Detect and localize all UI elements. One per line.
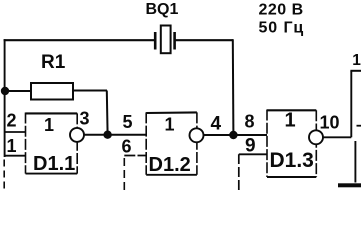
label BQ1	[146, 1, 179, 18]
wire: left vertical bus from top corner down through node A	[3, 39, 5, 190]
gate D1.2 function symbol 1	[165, 115, 175, 135]
wire: stub at right edge (clipped)	[357, 125, 361, 127]
node A: junction dot left bus / R1	[1, 87, 9, 95]
pin 3 label	[80, 109, 90, 129]
svg-text:50 Гц: 50 Гц	[259, 20, 305, 37]
label 50 Hz	[259, 20, 305, 37]
svg-text:6: 6	[122, 137, 132, 157]
wire: node A to resistor R1 left lead	[5, 90, 31, 92]
wire: pin 6 input from bottom	[124, 156, 146, 191]
svg-text:R1: R1	[41, 52, 66, 73]
label 220 V	[259, 2, 304, 19]
pin 1 label	[7, 136, 17, 156]
gate D1.3 function symbol 1	[285, 110, 296, 132]
wire: D1.1 output to D1.2 pin 5	[77, 134, 146, 136]
node B: junction dot feedback/output	[103, 131, 111, 139]
svg-text:D1.3: D1.3	[270, 149, 314, 172]
pin 5 label	[123, 112, 133, 132]
svg-text:1: 1	[165, 115, 175, 135]
inversion bubble on D1.2 output	[190, 128, 204, 142]
svg-text:8: 8	[245, 112, 255, 132]
wire: D1.3 output to right riser	[316, 136, 351, 138]
svg-text:4: 4	[211, 114, 222, 135]
wire: pin 2 input from left bus	[4, 131, 26, 133]
wire: stub to capacitor at bottom right	[354, 141, 356, 183]
svg-text:3: 3	[80, 109, 90, 129]
inversion bubble on D1.1 output	[70, 128, 84, 142]
wire: crystal right lead to corner and down to node C	[175, 39, 234, 135]
wire: D1.2 output to D1.3 pin 8	[197, 134, 267, 136]
wire: riser up to top-right exit	[350, 71, 361, 138]
svg-text:BQ1: BQ1	[146, 1, 179, 18]
wire: top-left horizontal from left riser to crystal left lead	[4, 39, 155, 41]
gate D1.2 box	[146, 112, 197, 174]
gate D1.1 box	[26, 113, 78, 174]
svg-text:1: 1	[7, 136, 17, 156]
pin 1 label of next stage (clipped)	[352, 52, 361, 69]
svg-text:1: 1	[285, 110, 296, 132]
node C: junction dot crystal/output	[229, 131, 237, 139]
gate D1.1 function symbol 1	[44, 115, 54, 135]
svg-text:2: 2	[7, 111, 17, 131]
gate D1.3 box	[267, 110, 316, 178]
pin 8 label	[245, 112, 255, 132]
pin 9 label	[245, 136, 256, 157]
pin 2 label	[7, 111, 17, 131]
svg-text:10: 10	[320, 113, 340, 133]
pin 6 label	[122, 137, 132, 157]
resistor R1 body	[31, 83, 73, 100]
gate D1.3 designator text	[270, 149, 314, 172]
svg-text:1: 1	[352, 52, 361, 69]
pin 4 label	[211, 114, 222, 135]
gate D1.2 designator text	[149, 154, 191, 176]
svg-text:5: 5	[123, 112, 133, 132]
svg-text:220 В: 220 В	[259, 2, 304, 19]
svg-text:9: 9	[245, 136, 256, 157]
wire: pin 9 input from bottom	[239, 154, 267, 190]
wire: pin 1 input from left bus	[4, 155, 26, 157]
svg-text:1: 1	[44, 115, 54, 135]
pin 10 label	[320, 113, 340, 133]
svg-text:D1.2: D1.2	[149, 154, 191, 176]
wire: R1 right lead to corner and down to node B	[73, 91, 108, 135]
svg-text:D1.1: D1.1	[33, 153, 75, 175]
gate D1.1 designator text	[33, 153, 75, 175]
capacitor plate (clipped at bottom edge)	[338, 183, 361, 187]
crystal BQ1	[155, 26, 174, 54]
inversion bubble on D1.3 output	[309, 130, 323, 144]
label R1	[41, 52, 66, 73]
